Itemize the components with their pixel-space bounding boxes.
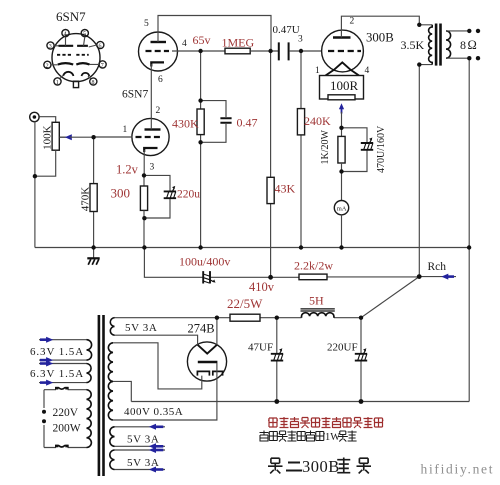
svg-text:7: 7	[101, 63, 104, 69]
svg-text:430K: 430K	[172, 116, 199, 130]
meter mA	[341, 172, 343, 201]
capacitor 220UF	[360, 318, 362, 402]
svg-text:4: 4	[64, 32, 67, 38]
capacitor 470U/160V loop	[342, 128, 368, 172]
triode V1b (upper, SRPP top)	[139, 32, 178, 71]
svg-text:47UF: 47UF	[248, 342, 273, 354]
svg-text:240K: 240K	[304, 114, 331, 128]
svg-text:2.2k/2w: 2.2k/2w	[294, 259, 333, 273]
svg-text:5V 3A: 5V 3A	[127, 434, 159, 446]
wire: HV winding bottom to 274B right plate	[113, 363, 217, 420]
winding 220V primary	[87, 390, 92, 448]
svg-text:1: 1	[123, 125, 128, 135]
svg-text:8: 8	[92, 80, 95, 86]
svg-text:Ω: Ω	[468, 38, 477, 52]
wire: 430K bottom to ground bus	[200, 135, 202, 248]
wire: 1MEG to node X	[250, 50, 278, 52]
triode V1a (lower)	[132, 118, 169, 155]
wire: V1a cathode down to 1.2v node	[143, 150, 145, 175]
capacitor 0.47	[220, 118, 231, 123]
wire: 0.47 cap loop	[201, 101, 226, 143]
svg-text:470U/160V: 470U/160V	[376, 125, 387, 173]
wire: HV winding top to 274B left plate	[113, 343, 202, 389]
svg-text:65v: 65v	[193, 33, 211, 47]
power transformer core	[98, 315, 101, 476]
wire: wiper to grid node	[70, 136, 94, 138]
winding 6.3V 1.5A (second)	[87, 364, 92, 383]
wire: jack to pot top	[40, 117, 56, 123]
blue terminal arrows 6.3V windings	[40, 337, 53, 386]
wire: 300B plate up to OPT	[341, 16, 419, 37]
svg-text:3: 3	[298, 35, 303, 45]
svg-text:0.47: 0.47	[237, 116, 258, 130]
svg-text:43K: 43K	[275, 182, 296, 196]
hum pot 100R	[320, 76, 364, 100]
resistor 470K	[93, 137, 95, 247]
wire: V1a grid to pot wiper node	[94, 136, 133, 138]
switch top	[44, 389, 87, 391]
svg-text:100K: 100K	[42, 125, 54, 150]
svg-text:300B: 300B	[366, 31, 394, 45]
svg-text:1K/20W: 1K/20W	[320, 130, 331, 165]
wire: OPT primary bottom down to Rch node	[418, 65, 420, 277]
resistor 300 cathode	[143, 175, 145, 186]
wire: V1b grid pin4 to 65v node, to 1MEG	[172, 50, 225, 52]
tube socket 6SN7 pinout	[44, 29, 106, 87]
svg-text:6: 6	[158, 75, 163, 85]
capacitor 100u/400v	[203, 271, 215, 283]
winding 5V 3A (second)	[110, 427, 115, 447]
pot 100R wiper (blue)	[339, 103, 344, 113]
svg-text:2: 2	[350, 17, 355, 27]
svg-text:1.2v: 1.2v	[116, 163, 139, 177]
svg-text:3: 3	[49, 44, 52, 50]
svg-text:5H: 5H	[309, 294, 324, 308]
choke 5H	[301, 309, 335, 318]
resistor 240K	[297, 109, 304, 135]
svg-text:6: 6	[99, 44, 102, 50]
wire: diagonal Rch node to choke output	[361, 277, 419, 318]
title: pure class-A2 300B single-ended	[268, 458, 283, 473]
svg-text:100R: 100R	[330, 78, 359, 93]
svg-text:6.3V 1.5A: 6.3V 1.5A	[30, 368, 84, 380]
potentiometer 100K	[52, 122, 59, 150]
resistor 1MEG	[225, 48, 250, 54]
ground bus	[35, 247, 469, 249]
svg-text:22/5W: 22/5W	[227, 296, 263, 311]
wire: HV center tap to PSU common	[113, 381, 131, 401]
svg-text:6.3V 1.5A: 6.3V 1.5A	[30, 346, 84, 358]
capacitor 0.47U coupling	[279, 42, 289, 60]
svg-text:3.5K: 3.5K	[401, 38, 425, 52]
wire: V1b cathode to V1a plate	[150, 64, 152, 130]
svg-text:5: 5	[144, 19, 149, 29]
svg-text:1: 1	[56, 80, 59, 86]
capacitor 47UF	[276, 318, 278, 402]
winding 5V 3A (274B filament)	[110, 318, 114, 336]
pot 100K wiper (blue)	[60, 134, 72, 140]
svg-text:200W: 200W	[53, 423, 81, 435]
output transformer 3.5K:8ohm	[419, 24, 469, 66]
wire: 300B grid node down through 240K	[300, 51, 302, 248]
PSU B+ rail	[115, 317, 362, 319]
wire: node X down through 43K to 410v line	[270, 51, 272, 277]
svg-text:1: 1	[315, 66, 320, 76]
svg-text:300B: 300B	[302, 457, 340, 476]
winding 6.3V 1.5A (first)	[87, 340, 92, 360]
svg-text:2: 2	[46, 63, 49, 69]
wire: pot bottom to jack ground line	[35, 150, 56, 176]
wire: 274B filament left to 5V winding	[115, 335, 198, 345]
svg-text:220u: 220u	[177, 189, 200, 201]
svg-text:220V: 220V	[53, 407, 79, 419]
switch bottom	[44, 447, 87, 449]
resistor 22/5W	[230, 314, 260, 321]
svg-text:Rch: Rch	[428, 261, 447, 273]
svg-text:hifidiy.net: hifidiy.net	[421, 462, 495, 477]
svg-text:410v: 410v	[249, 280, 275, 294]
resistor 43K	[267, 177, 274, 203]
note (red Chinese): first-stage decoupling shared by both channels	[268, 417, 384, 428]
winding 400V 0.35A	[108, 343, 113, 420]
note (black Chinese): resistors 1W unless noted	[260, 431, 325, 442]
svg-text:3: 3	[150, 163, 155, 173]
svg-text:1W: 1W	[325, 432, 340, 443]
svg-text:300: 300	[111, 186, 131, 201]
resistor 1K/20W	[338, 136, 345, 163]
capacitor 220u bypass loop	[144, 175, 170, 218]
svg-text:4: 4	[365, 66, 370, 76]
winding 5V 3A (third)	[110, 450, 115, 470]
svg-text:mA: mA	[337, 206, 347, 213]
svg-text:220UF: 220UF	[327, 342, 358, 354]
svg-text:8: 8	[460, 38, 466, 52]
wire: jack ground down	[34, 121, 36, 247]
PSU common line	[131, 401, 469, 403]
svg-text:0.47U: 0.47U	[273, 24, 300, 36]
svg-text:6SN7: 6SN7	[56, 9, 86, 24]
wire: OPT secondary bottom down right edge to PSU common	[468, 58, 470, 401]
mains terminals	[43, 390, 45, 448]
svg-text:4: 4	[182, 39, 187, 49]
svg-text:400V 0.35A: 400V 0.35A	[124, 406, 183, 418]
svg-text:6SN7: 6SN7	[122, 89, 148, 101]
ground symbol	[87, 248, 99, 265]
resistor 2.2k/2w	[299, 274, 327, 280]
svg-text:1MEG: 1MEG	[222, 36, 255, 50]
input jack	[30, 112, 39, 121]
B+ 410v line	[144, 248, 419, 278]
blue terminal arrows 5V windings	[149, 424, 164, 473]
svg-text:274B: 274B	[188, 322, 215, 336]
wire: 0.47U to 300B grid node	[289, 50, 322, 52]
wire: 65v node down to 430K	[200, 51, 202, 109]
wire: wiper down to 1K/20W node	[341, 112, 343, 136]
svg-text:5V 3A: 5V 3A	[125, 322, 157, 334]
svg-text:100u/400v: 100u/400v	[179, 255, 230, 269]
resistor 430K	[197, 109, 204, 135]
svg-text:2: 2	[156, 106, 161, 116]
wire: V1b plate pin5 up and right to node X	[158, 16, 271, 52]
svg-text:470K: 470K	[80, 187, 92, 212]
tube 300B	[322, 30, 364, 75]
wire: 274B filament right to B+ node	[216, 318, 218, 345]
